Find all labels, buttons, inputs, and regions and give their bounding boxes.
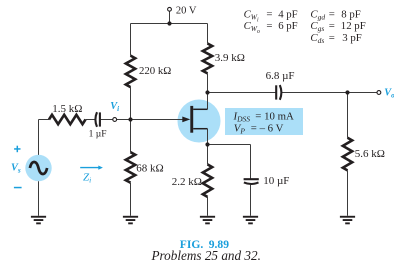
svg-text:20 V: 20 V [176, 5, 197, 16]
svg-text:10 µF: 10 µF [263, 175, 289, 187]
svg-text:3.9 kΩ: 3.9 kΩ [215, 52, 245, 64]
svg-text:=: = [266, 9, 272, 21]
svg-text:Cds: Cds [310, 32, 324, 45]
svg-text:= 10 mA: = 10 mA [255, 110, 294, 122]
svg-text:=: = [329, 32, 335, 44]
svg-text:=: = [329, 8, 335, 20]
svg-text:2.2 kΩ: 2.2 kΩ [172, 176, 202, 188]
svg-text:5.6 kΩ: 5.6 kΩ [355, 148, 385, 160]
svg-text:3 pF: 3 pF [342, 32, 362, 44]
svg-text:Vi: Vi [110, 101, 119, 113]
svg-text:Vo: Vo [384, 87, 394, 99]
svg-text:Problems 25 and 32.: Problems 25 and 32. [150, 248, 260, 263]
svg-text:6.8 µF: 6.8 µF [266, 70, 295, 82]
svg-text:=: = [266, 20, 272, 32]
svg-text:1 µF: 1 µF [89, 130, 107, 140]
svg-text:220 kΩ: 220 kΩ [139, 65, 171, 77]
svg-text:Zi: Zi [83, 172, 91, 185]
svg-text:12 pF: 12 pF [341, 20, 366, 32]
svg-text:68 kΩ: 68 kΩ [136, 163, 163, 175]
svg-text:4 pF: 4 pF [278, 9, 298, 21]
svg-text:Vs: Vs [11, 162, 21, 174]
svg-text:1.5 kΩ: 1.5 kΩ [52, 103, 82, 115]
svg-text:= – 6 V: = – 6 V [251, 122, 284, 134]
svg-text:=: = [329, 20, 335, 32]
svg-text:8 pF: 8 pF [341, 8, 361, 20]
svg-text:6 pF: 6 pF [278, 20, 298, 32]
